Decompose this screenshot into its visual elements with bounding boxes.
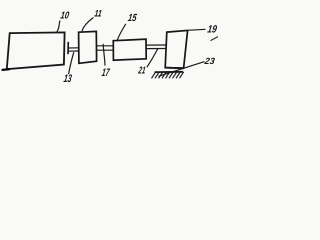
svg-text:21: 21 [137, 66, 147, 77]
leader for 23 [159, 62, 205, 77]
leader for 15 [117, 24, 126, 41]
svg-text:11: 11 [94, 9, 103, 20]
coupling 13 (small box on shaft) [67, 42, 69, 54]
block 19 [165, 30, 187, 68]
leader for 19 [188, 29, 206, 30]
svg-text:19: 19 [207, 23, 218, 35]
svg-text:13: 13 [63, 73, 73, 85]
leader for 21 [147, 49, 158, 68]
svg-text:23: 23 [203, 56, 216, 66]
svg-text:15: 15 [127, 13, 138, 24]
leader for 10 [56, 21, 60, 33]
block 15 [113, 39, 146, 60]
ground line under 19 [155, 71, 184, 73]
svg-text:17: 17 [101, 67, 111, 79]
shaft 17 (between 11 and 15) [97, 46, 114, 50]
stray pen stroke below 19 [211, 37, 219, 41]
block 10 (motor box) [7, 32, 65, 69]
ground hatching [152, 72, 184, 79]
block 19 bottom edge (thick) [165, 67, 183, 70]
svg-text:10: 10 [60, 11, 71, 22]
leader for 17 [103, 44, 105, 66]
shaft between 10 and 11 [68, 48, 78, 51]
leader for 13 [69, 52, 74, 74]
bottom-left corner ink blob [3, 68, 10, 71]
block 11 [79, 31, 97, 63]
shaft 21 (between 15 and 19) [146, 45, 166, 49]
leader for 11 [82, 18, 94, 32]
